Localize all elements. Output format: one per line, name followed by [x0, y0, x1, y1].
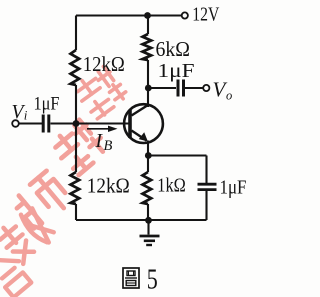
svg-text:5: 5: [147, 264, 158, 296]
svg-text:1μF: 1μF: [158, 60, 195, 82]
svg-text:1kΩ: 1kΩ: [157, 175, 186, 197]
svg-text:i: i: [24, 108, 28, 123]
svg-text:6kΩ: 6kΩ: [156, 37, 191, 61]
svg-text:1μF: 1μF: [34, 93, 60, 114]
svg-text:12V: 12V: [192, 4, 219, 26]
svg-text:12kΩ: 12kΩ: [83, 52, 125, 76]
svg-text:1μF: 1μF: [220, 176, 247, 198]
svg-text:o: o: [226, 89, 232, 103]
svg-text:12kΩ: 12kΩ: [87, 173, 130, 197]
svg-text:B: B: [104, 138, 113, 154]
